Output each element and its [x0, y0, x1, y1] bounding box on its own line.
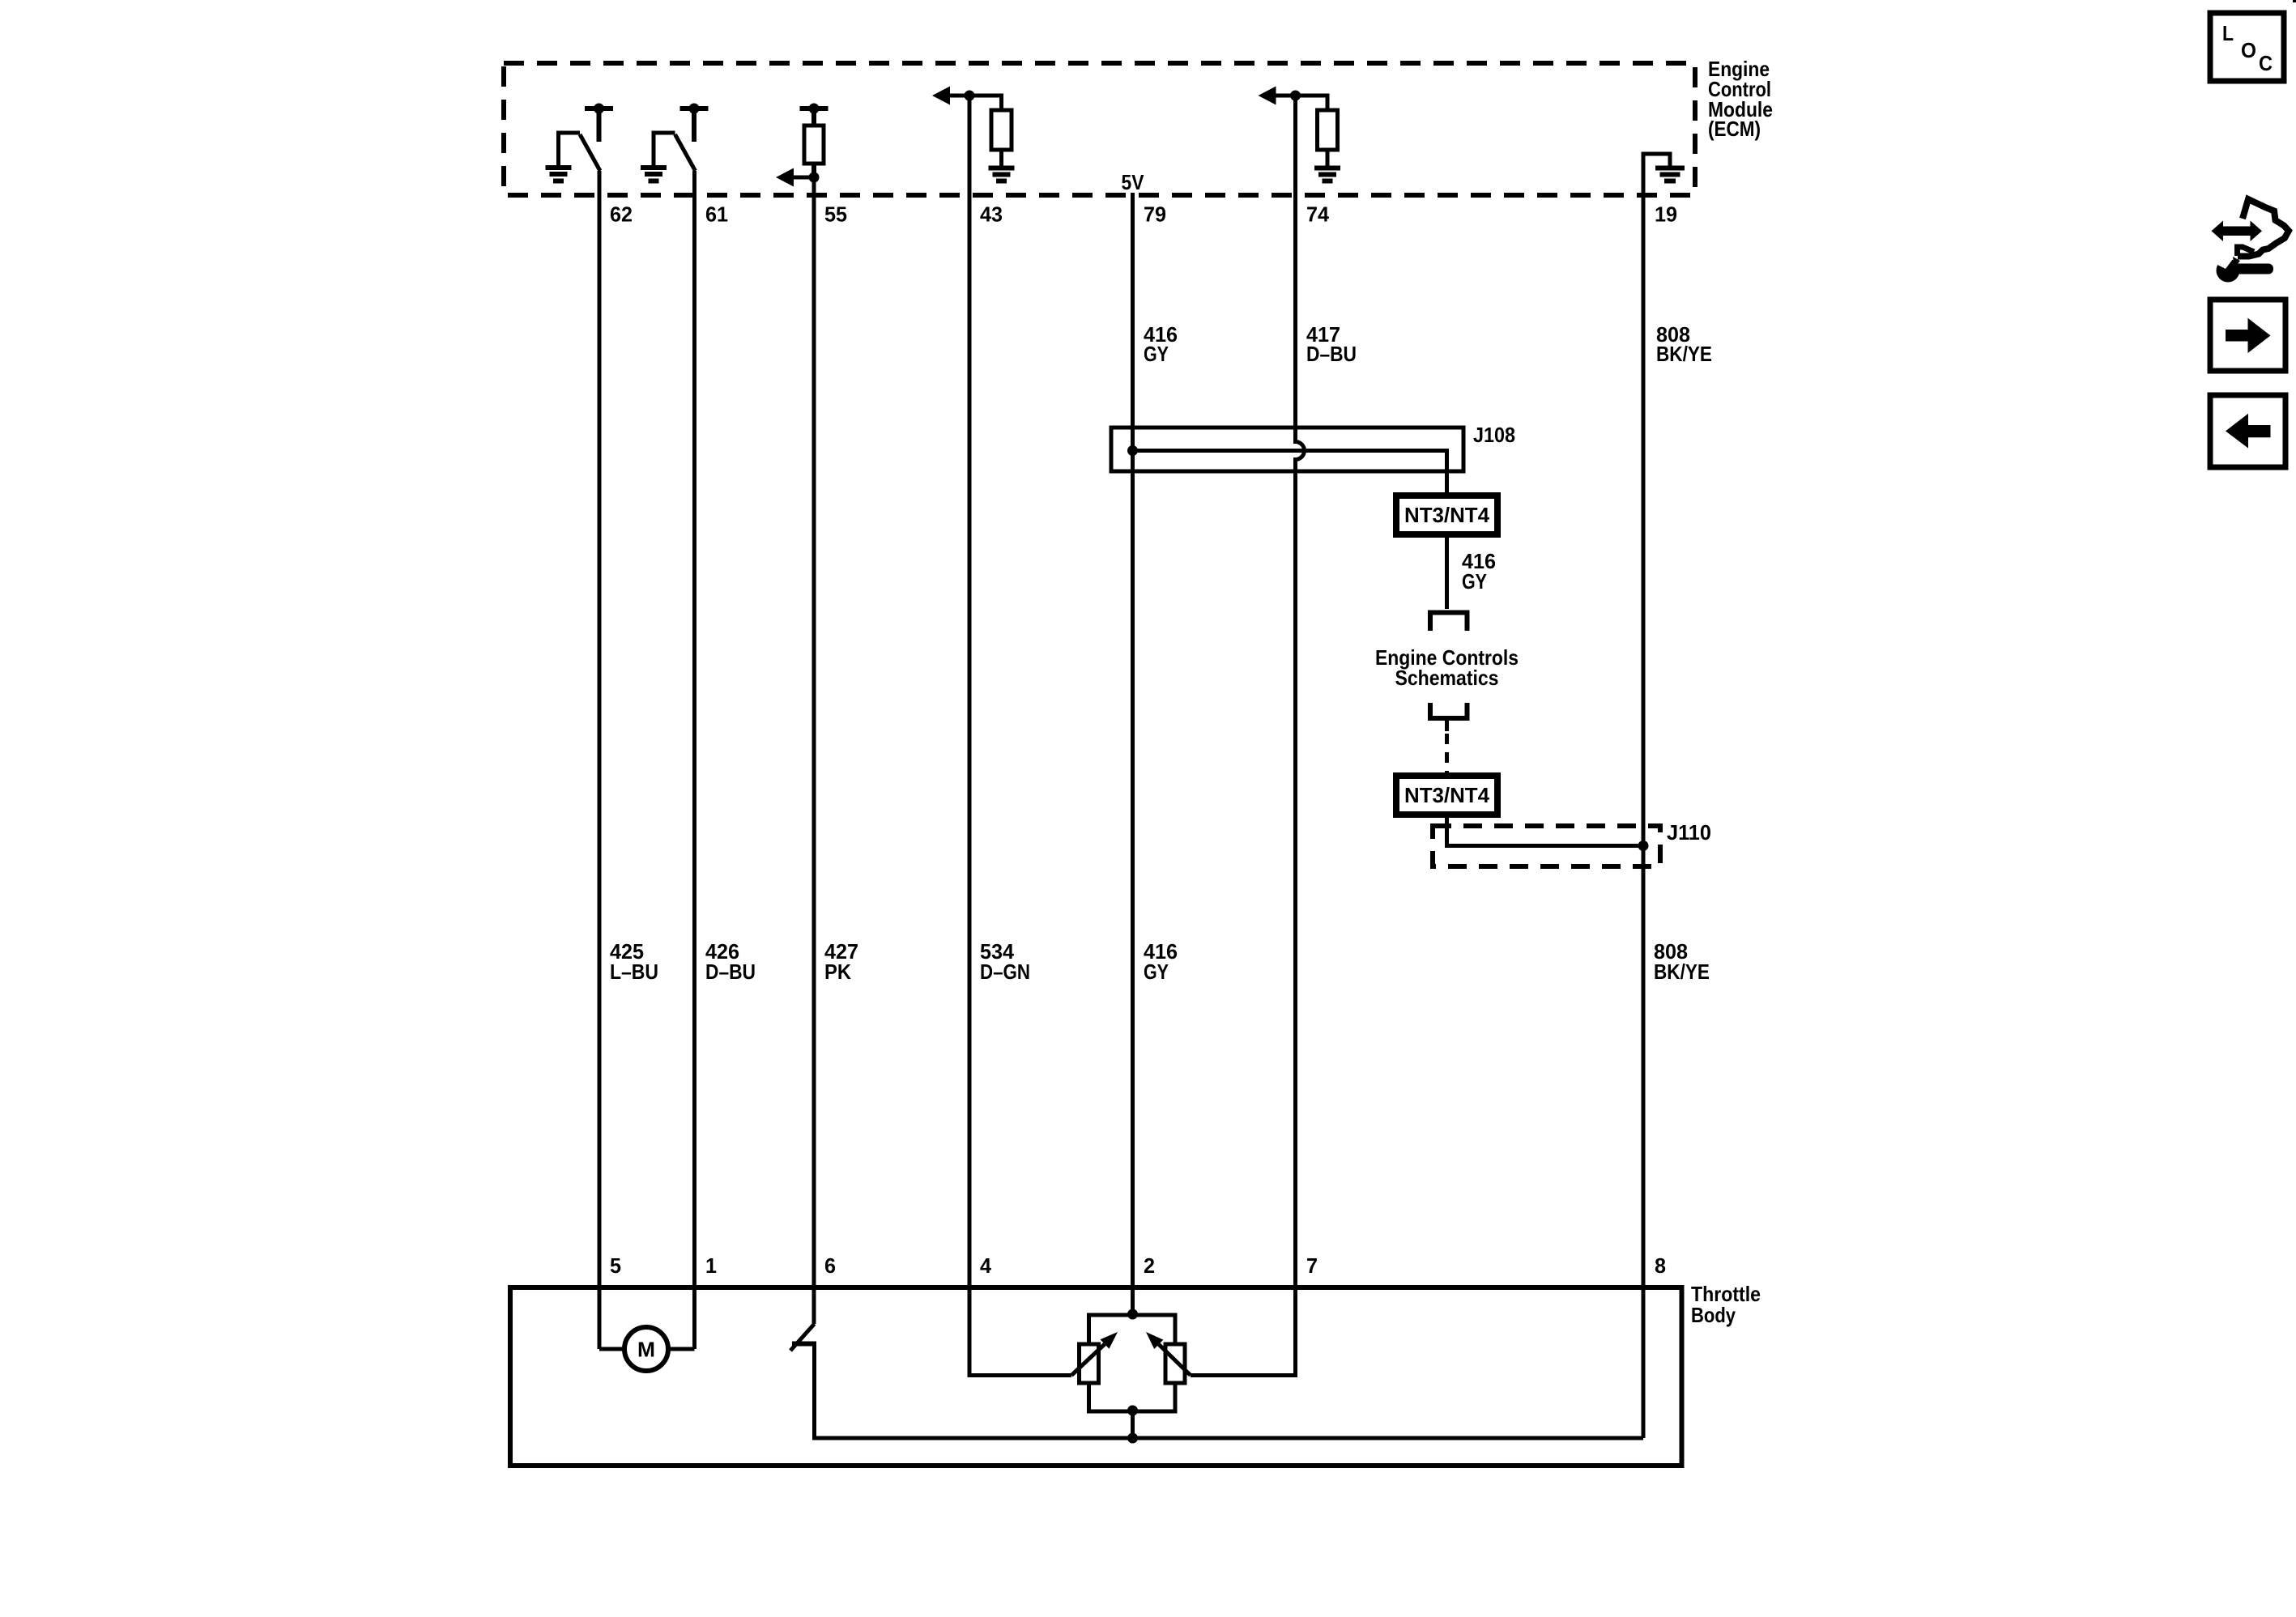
motor M1	[599, 1347, 695, 1351]
svg-text:5V: 5V	[1122, 170, 1145, 194]
svg-text:GY: GY	[1144, 342, 1169, 366]
driver switch Q61 (pin 61)	[641, 109, 709, 181]
svg-text:8: 8	[1655, 1253, 1666, 1278]
connector NT3/NT4 (upper)	[1396, 496, 1497, 534]
svg-text:61: 61	[705, 202, 728, 227]
svg-text:Body: Body	[1691, 1303, 1736, 1327]
svg-text:D–BU: D–BU	[705, 960, 756, 984]
svg-text:D–BU: D–BU	[1306, 342, 1357, 366]
svg-text:BK/YE: BK/YE	[1654, 960, 1710, 984]
wire 427 PK (pin55 to pin6)	[812, 177, 816, 1324]
svg-text:L: L	[2222, 21, 2234, 45]
off-page connector bracket (upper)	[1430, 613, 1467, 632]
svg-text:2: 2	[1144, 1253, 1155, 1278]
forward view arrow icon	[2210, 300, 2285, 371]
svg-text:D–GN: D–GN	[980, 960, 1030, 984]
svg-text:1: 1	[705, 1253, 717, 1278]
svg-text:O: O	[2241, 38, 2256, 62]
dashed continuation wire	[1445, 734, 1449, 776]
splice J108	[1111, 428, 1463, 471]
svg-text:NT3/NT4: NT3/NT4	[1404, 783, 1490, 807]
page corner mark	[2293, 0, 2296, 2]
internal ground (pin 19)	[1643, 154, 1685, 195]
svg-text:19: 19	[1655, 202, 1677, 227]
off-page connector bracket (lower)	[1430, 703, 1467, 718]
svg-text:L–BU: L–BU	[610, 960, 658, 984]
wire 426 D-BU (pin61 to pin1)	[692, 171, 696, 1349]
splice J110 (dashed)	[1433, 826, 1660, 866]
svg-text:M: M	[637, 1338, 655, 1362]
svg-text:7: 7	[1306, 1253, 1318, 1278]
svg-text:43: 43	[980, 202, 1003, 227]
wire into splice J110	[1447, 815, 1644, 846]
svg-text:PK: PK	[824, 960, 851, 984]
resistor with output arrow (pin 55)	[793, 109, 829, 177]
svg-text:6: 6	[824, 1253, 836, 1278]
svg-text:GY: GY	[1462, 569, 1487, 594]
wire 534 D-GN (pin43 to pin4)	[969, 96, 1071, 1376]
svg-text:J108: J108	[1473, 423, 1515, 447]
component locator icon (arrows, car outline, wrench)	[2222, 227, 2251, 236]
svg-text:C: C	[2259, 51, 2273, 75]
back view arrow icon	[2210, 395, 2285, 467]
svg-text:74: 74	[1306, 202, 1330, 227]
input arrow + pull-down resistor (pin 74)	[1276, 96, 1341, 181]
svg-text:55: 55	[824, 202, 847, 227]
TPS potentiometer assembly	[1127, 1309, 1138, 1320]
wire 416 GY stub	[1445, 534, 1449, 609]
wire from switch to bottom rail	[815, 1344, 1644, 1439]
svg-text:J110: J110	[1667, 820, 1711, 845]
wire 417 D-BU (pin74 to pin7, hops over J108 splice lead)	[1191, 96, 1305, 1376]
wire 425 L-BU (pin62 to pin5)	[598, 171, 602, 1349]
connector NT3/NT4 (lower)	[1396, 776, 1497, 815]
svg-text:4: 4	[980, 1253, 992, 1278]
svg-text:Schematics: Schematics	[1395, 666, 1499, 690]
svg-text:5: 5	[610, 1253, 621, 1278]
wire 416 GY (pin79 to pin2)	[1131, 193, 1135, 1314]
Throttle Body box	[510, 1287, 1682, 1466]
svg-text:BK/YE: BK/YE	[1656, 342, 1712, 366]
svg-text:62: 62	[610, 202, 633, 227]
svg-text:NT3/NT4: NT3/NT4	[1404, 503, 1490, 527]
svg-text:79: 79	[1144, 202, 1166, 227]
LOC icon	[2210, 13, 2284, 81]
svg-text:(ECM): (ECM)	[1708, 117, 1761, 141]
ECM dashed box	[504, 63, 1695, 195]
input arrow + pull-down resistor (pin 43)	[949, 96, 1015, 181]
wire 808 BK/YE (pin19 to pin8)	[1642, 154, 1646, 1438]
svg-text:GY: GY	[1144, 960, 1169, 984]
driver switch Q62 (pin 62)	[546, 109, 614, 181]
throttle position switch (pin 6)	[790, 1324, 815, 1351]
